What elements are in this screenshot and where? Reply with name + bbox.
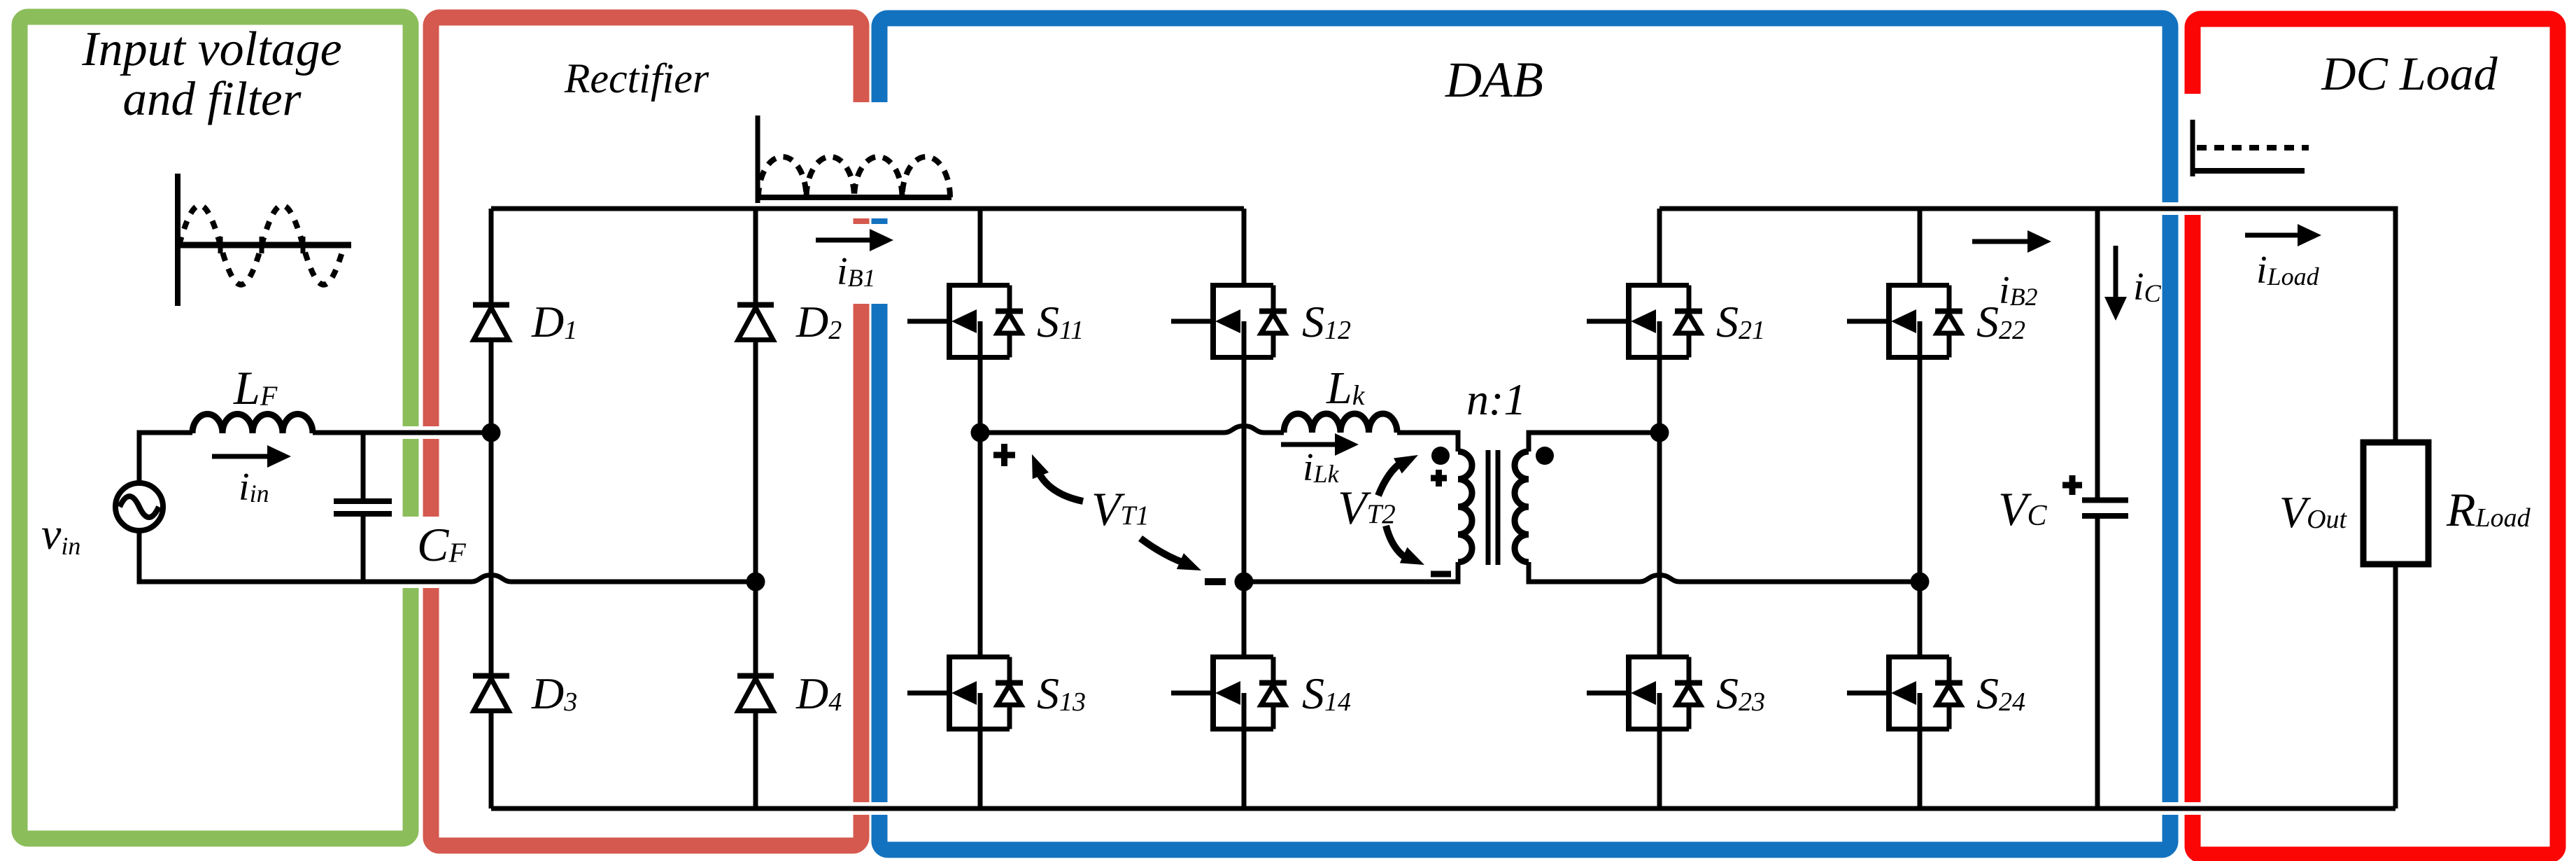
arrow i_Lk: [1281, 442, 1335, 447]
arrow i_Load: [2245, 233, 2298, 238]
svg-text:D2: D2: [795, 297, 842, 346]
transistor S12: [1171, 283, 1287, 360]
wire casings: [139, 209, 2395, 808]
resistor RLoad: [2363, 442, 2428, 564]
inductor LF: [192, 414, 313, 433]
hop over rectifier left leg: [471, 575, 511, 582]
wire: bridge2 left leg: [1657, 209, 1662, 808]
diode D1: [473, 305, 509, 340]
icon: input sine wave: [175, 174, 351, 306]
node: bridge2 right mid: [1911, 573, 1930, 591]
green box: Input voltage and filter: [20, 17, 411, 839]
white gap for iB1 arrow and label over borders: [848, 224, 891, 304]
svg-text:S23: S23: [1716, 668, 1765, 718]
svg-text:vin: vin: [41, 509, 80, 560]
svg-text:VT1: VT1: [1091, 482, 1149, 535]
wire: LF to rectifier node: [313, 430, 491, 435]
wire: top bus rectifier+bridge1: [491, 206, 1244, 211]
wire: transformer secondary bottom with hop over bridge2 left leg: [1529, 562, 1639, 582]
wire: bridge1 right leg: [1242, 209, 1247, 808]
white gap for rectified-sine icon over salmon/blue borders: [844, 102, 897, 218]
wire: rectifier left leg: [489, 209, 494, 808]
svg-text:and filter: and filter: [123, 72, 302, 125]
capacitor VC: [2082, 500, 2128, 517]
curved arrow VT2 upper: [1378, 462, 1402, 496]
diode D3: [473, 676, 509, 711]
arrow i_B2: [1972, 239, 2027, 244]
transistor S22: [1847, 283, 1962, 360]
svg-text:iLoad: iLoad: [2256, 248, 2320, 292]
transformer phase dot primary: [1431, 447, 1450, 465]
svg-text:DC Load: DC Load: [2321, 47, 2498, 100]
blue box: DAB: [879, 18, 2170, 850]
svg-text:S11: S11: [1037, 297, 1084, 346]
wire: top bus bridge2 to load corner: [1659, 209, 2395, 808]
svg-text:n:1: n:1: [1466, 374, 1526, 424]
diode D4: [737, 676, 774, 711]
svg-text:S12: S12: [1302, 297, 1351, 346]
transistor S14: [1171, 654, 1287, 731]
svg-text:S24: S24: [1976, 668, 2025, 718]
svg-text:D4: D4: [795, 668, 842, 718]
curved arrow VT1 lower: [1140, 538, 1184, 563]
wire: bridge1 mid top with hop over right leg: [980, 430, 1224, 435]
svg-text:iC: iC: [2133, 265, 2162, 309]
svg-text:RLoad: RLoad: [2446, 483, 2531, 536]
transistor S21: [1587, 283, 1702, 360]
capacitor CF: [334, 501, 392, 514]
ac source vin: [115, 483, 163, 531]
node: rectifier right mid: [746, 573, 765, 591]
svg-text:D3: D3: [531, 668, 577, 718]
transistor S24: [1847, 654, 1962, 731]
svg-text:VT2: VT2: [1338, 481, 1396, 534]
icon: dc level: [2193, 120, 2309, 176]
svg-text:LF: LF: [233, 361, 278, 414]
transistor S13: [907, 654, 1023, 731]
node: rectifier left mid: [482, 423, 501, 442]
svg-text:Rectifier: Rectifier: [564, 55, 709, 101]
arrow i_in: [212, 454, 267, 459]
wire: rectifier right leg: [753, 209, 758, 808]
svg-text:Input voltage: Input voltage: [81, 22, 341, 76]
svg-text:iLk: iLk: [1303, 446, 1340, 489]
icon: rectified sine: [756, 115, 951, 203]
arrow i_C: [2114, 246, 2118, 297]
curved arrow VT2 lower: [1386, 526, 1405, 557]
svg-text:S21: S21: [1716, 297, 1765, 346]
transistor S23: [1587, 654, 1702, 731]
transistor S11: [907, 283, 1023, 360]
red box: DC Load: [2193, 19, 2558, 855]
arrow i_B1: [816, 238, 870, 243]
transformer core: [1488, 450, 1498, 565]
wire: bridge1 mid bottom to transformer primary: [1244, 562, 1458, 582]
wire: CF branch: [361, 433, 366, 582]
white gap for DC icon over red border: [2184, 94, 2211, 206]
node: bridge1 right mid: [1235, 573, 1254, 591]
wire: bridge2 right leg: [1918, 209, 1923, 808]
svg-text:VOut: VOut: [2279, 487, 2348, 537]
wire: Lk to transformer primary: [1397, 433, 1458, 451]
white gap for CF label over green/salmon borders: [397, 517, 476, 577]
svg-text:iin: iin: [239, 465, 269, 509]
minus mark VT2: [1431, 571, 1451, 577]
svg-text:Lk: Lk: [1326, 363, 1366, 414]
transformer primary winding: [1458, 451, 1472, 562]
node: bridge1 left mid: [971, 423, 990, 442]
wire: transformer secondary top to bridge2: [1529, 433, 1659, 451]
svg-text:VC: VC: [1998, 482, 2048, 535]
svg-text:iB2: iB2: [1999, 269, 2038, 312]
plus mark VT2: [1431, 470, 1447, 486]
diode D2: [737, 305, 774, 340]
plus mark VT1: [993, 444, 1015, 466]
svg-text:S13: S13: [1037, 668, 1086, 718]
salmon box: Rectifier: [431, 17, 861, 846]
node: bridge2 left mid: [1650, 423, 1669, 442]
transformer secondary winding: [1515, 451, 1529, 562]
transformer phase dot secondary: [1536, 447, 1554, 465]
curved arrow VT1 upper: [1038, 472, 1083, 501]
wire: source left branch: [139, 433, 471, 582]
inductor Lk: [1284, 414, 1397, 433]
plus mark VC: [2062, 475, 2082, 495]
minus mark VT1: [1205, 578, 1226, 585]
wire: VC capacitor branch: [2095, 209, 2100, 808]
wire: input bottom to D4, after hop: [511, 580, 756, 584]
svg-text:DAB: DAB: [1445, 52, 1543, 108]
wire: bridge1 left leg: [978, 209, 983, 808]
svg-text:S14: S14: [1302, 668, 1351, 718]
svg-text:D1: D1: [531, 297, 577, 346]
wire: bottom bus: [491, 806, 2395, 811]
